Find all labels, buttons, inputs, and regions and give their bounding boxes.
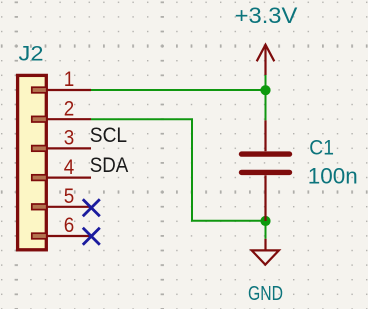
pin 5 <box>32 184 91 210</box>
pin 2 <box>32 96 91 122</box>
svg-text:3: 3 <box>64 126 75 150</box>
power symbol +3.3V <box>257 45 275 75</box>
pin 4 <box>32 155 91 181</box>
svg-text:SCL: SCL <box>90 124 127 147</box>
svg-text:2: 2 <box>64 96 75 120</box>
svg-text:4: 4 <box>64 155 75 179</box>
svg-text:J2: J2 <box>19 43 44 66</box>
no-connect pin 6 <box>83 228 100 245</box>
pin 6 <box>32 213 91 239</box>
svg-text:GND: GND <box>248 283 283 305</box>
capacitor C1 <box>242 120 290 221</box>
text GND <box>248 283 283 305</box>
wire pin1 to +3.3V node <box>91 89 266 91</box>
svg-text:6: 6 <box>64 213 75 237</box>
svg-text:100n: 100n <box>308 164 358 189</box>
reference J2 <box>19 43 44 66</box>
junction at +3.3V node <box>260 85 270 95</box>
pin 3 <box>32 126 91 152</box>
svg-text:SDA: SDA <box>90 154 129 177</box>
text +3.3V <box>235 3 298 28</box>
wire pin2 to capacitor bottom node <box>91 119 266 221</box>
svg-text:+3.3V: +3.3V <box>235 3 298 28</box>
pin 1 <box>32 67 91 93</box>
svg-text:5: 5 <box>64 184 75 208</box>
svg-text:C1: C1 <box>309 137 334 160</box>
label SCL <box>90 124 127 147</box>
ground symbol GND <box>252 239 279 265</box>
label SDA <box>90 154 129 177</box>
wire +3.3V symbol to capacitor top <box>265 75 267 121</box>
connector J2 body <box>18 75 47 249</box>
reference C1 <box>309 137 334 160</box>
no-connect pin 5 <box>83 199 100 216</box>
value 100n <box>308 164 358 189</box>
junction at capacitor bottom node <box>260 216 270 226</box>
svg-text:1: 1 <box>64 67 75 91</box>
wire capacitor bottom to GND <box>265 221 267 239</box>
